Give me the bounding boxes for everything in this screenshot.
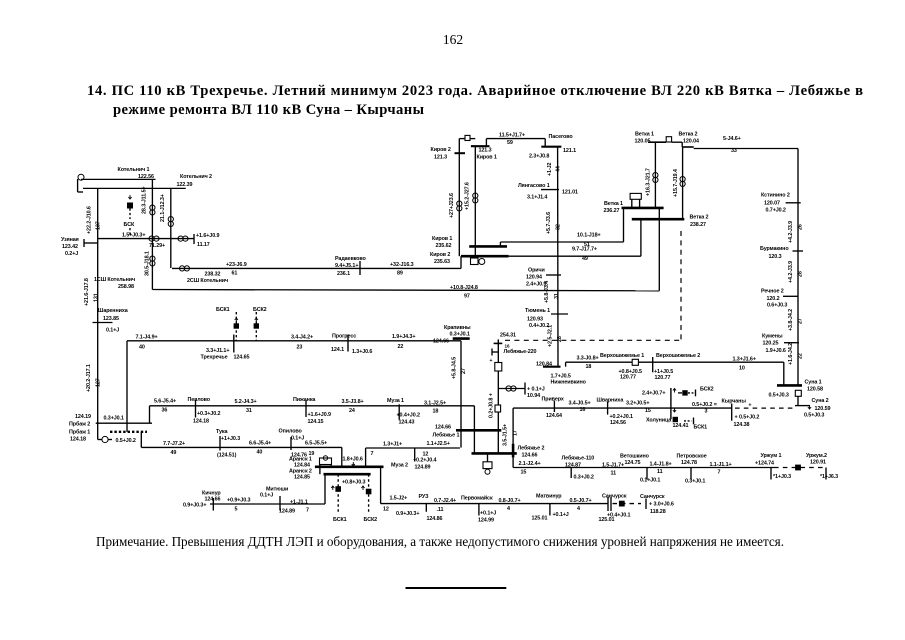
- svg-text:6.5-J5.5+: 6.5-J5.5+: [305, 440, 327, 446]
- svg-text:124.78: 124.78: [681, 460, 697, 466]
- svg-text:+16.3-J21.7: +16.3-J21.7: [646, 168, 652, 196]
- wire drop Аранск to Кичнур line: [324, 474, 326, 504]
- bottom rule: [406, 587, 507, 589]
- svg-text:124.43: 124.43: [399, 419, 415, 425]
- load 0.8+J0.3: [342, 480, 365, 486]
- svg-text:11.17: 11.17: [197, 242, 210, 248]
- node Санчурск: [599, 493, 631, 523]
- wire Прогресс line: [127, 334, 461, 350]
- node Аранск 1: [289, 457, 312, 469]
- svg-text:44: 44: [556, 166, 562, 172]
- load 2.4+J0.7: [642, 389, 688, 397]
- load 1.5+J0.3: [122, 233, 165, 249]
- load 1.6+J0.9: [196, 233, 219, 248]
- svg-text:12: 12: [423, 452, 429, 458]
- capacitor БСК1 Аранск: [331, 474, 346, 523]
- svg-text:32: 32: [556, 224, 562, 230]
- svg-text:Узяная: Узяная: [61, 237, 79, 243]
- svg-text:124.56: 124.56: [610, 420, 626, 426]
- svg-text:Кырчаны: Кырчаны: [722, 399, 747, 405]
- breaker box Аранск: [320, 456, 332, 474]
- svg-text:121.3: 121.3: [479, 148, 492, 154]
- svg-text:61: 61: [232, 271, 238, 277]
- svg-text:Шаренниха: Шаренниха: [98, 308, 129, 314]
- line tag 3.1-J2.5: [424, 400, 446, 414]
- svg-text:1.1+J2.5+: 1.1+J2.5+: [427, 441, 450, 447]
- svg-text:120.91: 120.91: [810, 460, 826, 466]
- svg-text:Санчурск: Санчурск: [602, 493, 627, 499]
- svg-text:10.94: 10.94: [527, 393, 540, 399]
- svg-text:127: 127: [96, 378, 102, 387]
- svg-text:3.5-J3.8+: 3.5-J3.8+: [342, 399, 364, 405]
- node Лебяжье-220: [494, 333, 537, 355]
- svg-text:+21.6-J17.8: +21.6-J17.8: [84, 278, 90, 306]
- node Крапивны: [433, 325, 471, 345]
- wire Киров 1 riser: [465, 146, 476, 246]
- node Верхошижемье 2: [653, 353, 701, 381]
- node Приверх: [542, 396, 564, 418]
- svg-text:162: 162: [443, 32, 463, 47]
- svg-text:89: 89: [397, 271, 403, 277]
- svg-text:Ветошкино: Ветошкино: [620, 453, 650, 459]
- svg-text:Уржум 1: Уржум 1: [761, 453, 782, 459]
- node Киров 1 top: [471, 146, 497, 160]
- svg-text:0.2+J0.8 +: 0.2+J0.8 +: [489, 393, 495, 418]
- capacitor БСК1 Трехречье: [216, 307, 239, 341]
- svg-text:+ 0.1+J: + 0.1+J: [527, 387, 545, 393]
- svg-text:49: 49: [171, 450, 177, 456]
- svg-text:5-J4.6+: 5-J4.6+: [723, 136, 741, 142]
- node Лебяжье 1: [433, 425, 460, 439]
- svg-text:+27+J23.6: +27+J23.6: [449, 193, 455, 218]
- line tag 3.4-J0.5: [569, 400, 591, 413]
- breaker feeder Лебяжье 1: [483, 453, 492, 474]
- svg-text:+1-J2: +1-J2: [547, 162, 553, 176]
- node Пеялово: [188, 397, 221, 424]
- svg-text:+ 3.0+J0.6: + 3.0+J0.6: [649, 502, 674, 508]
- svg-text:Лянгасово 1: Лянгасово 1: [518, 183, 550, 189]
- svg-text:+1+J0.3: +1+J0.3: [221, 436, 240, 442]
- svg-text:+5.8-J4.5: +5.8-J4.5: [452, 357, 458, 379]
- svg-text:15: 15: [521, 469, 527, 475]
- svg-text:Ветка 1: Ветка 1: [604, 201, 623, 207]
- svg-text:+32-J16.3: +32-J16.3: [390, 262, 414, 268]
- svg-text:124.75: 124.75: [625, 460, 641, 466]
- line tag 3.3-J0.8: [577, 355, 599, 370]
- breaker box Вятка top: [666, 137, 682, 143]
- svg-text:49: 49: [582, 256, 588, 262]
- wire Киров bus tie: [474, 246, 476, 256]
- svg-text:Холуница: Холуница: [646, 417, 672, 423]
- bus Киров 2 lower: [430, 252, 509, 265]
- page number: [443, 32, 463, 47]
- svg-text:+4.2-J3.9: +4.2-J3.9: [788, 261, 794, 283]
- wire dashed Уржум tie: [774, 467, 826, 469]
- svg-text:+1.6+J0.9: +1.6+J0.9: [308, 412, 331, 418]
- svg-text:Прбаж 2: Прбаж 2: [69, 421, 90, 428]
- wire drop to Аранск bus: [341, 447, 343, 466]
- svg-text:2.3+J0.8: 2.3+J0.8: [529, 153, 549, 159]
- wire dashed 220kV boundary horizontal: [505, 339, 681, 341]
- svg-text:2.4+J0.9: 2.4+J0.9: [526, 281, 546, 287]
- svg-text:1.8+J0.6: 1.8+J0.6: [343, 456, 363, 462]
- transformer Котельнич 1 upper: [150, 205, 155, 215]
- load feeder circle Прбаж: [98, 436, 136, 444]
- svg-text:Лебяжье 1: Лебяжье 1: [433, 432, 460, 439]
- line tag 1.6-J4.2: [788, 343, 804, 365]
- svg-text:23: 23: [297, 345, 303, 351]
- line tag 6.6-J5.4: [249, 441, 271, 456]
- svg-text:7: 7: [718, 470, 721, 476]
- svg-text:+0.4+J0.1: +0.4+J0.1: [607, 513, 630, 519]
- breaker + load Киров: [471, 258, 485, 265]
- svg-text:+0.2+J0.4: +0.2+J0.4: [413, 458, 436, 464]
- bus junction Холуница: [670, 388, 672, 419]
- svg-text:Киров 1: Киров 1: [432, 236, 452, 242]
- node Аранск 2: [289, 469, 312, 481]
- bus Лебяжье 1 upper: [456, 429, 501, 432]
- svg-text:Шварниха: Шварниха: [597, 397, 625, 403]
- svg-text:Киров 2: Киров 2: [430, 252, 450, 258]
- svg-text:1.3+J1.6+: 1.3+J1.6+: [733, 356, 756, 362]
- svg-text:Приверх: Приверх: [542, 396, 564, 402]
- wire Уржум line: [513, 467, 774, 469]
- svg-text:БСК2: БСК2: [253, 307, 267, 313]
- wire Тука line: [141, 446, 341, 448]
- wire local tie y238.6: [98, 234, 194, 244]
- node Шварниха: [597, 397, 633, 425]
- svg-text:124.87: 124.87: [565, 463, 581, 469]
- svg-text:0.4+J0.2: 0.4+J0.2: [529, 323, 549, 329]
- line tag 1.4-J1.8: [650, 461, 672, 475]
- svg-text:31: 31: [554, 293, 560, 299]
- line tag 1.9+J4.3: [392, 334, 415, 350]
- svg-text:+20.2-J17.1: +20.2-J17.1: [86, 364, 92, 392]
- svg-text:Лебяжье 2: Лебяжье 2: [518, 444, 545, 451]
- svg-text:137: 137: [96, 221, 102, 230]
- svg-text:1.3+J1+: 1.3+J1+: [383, 442, 402, 448]
- wire Киров2 to 2СШ corner: [460, 256, 462, 268]
- wire Верхошижемье line: [566, 361, 784, 363]
- svg-text:7.1-J4.9+: 7.1-J4.9+: [136, 334, 158, 340]
- svg-text:3.2+J0.5+: 3.2+J0.5+: [626, 401, 649, 407]
- svg-text:31: 31: [246, 408, 252, 414]
- wire line 9.7-J17.7 to Вятка: [509, 247, 641, 262]
- transformer Ветка 2: [680, 177, 685, 187]
- capacitor tie square: [619, 501, 625, 507]
- wire Муза 2 line: [366, 448, 460, 467]
- svg-text:59: 59: [507, 140, 513, 146]
- svg-text:120.3: 120.3: [769, 254, 782, 260]
- svg-text:1.9+J0.6: 1.9+J0.6: [766, 348, 786, 354]
- capacitor БСК2 Холуница: [688, 386, 714, 396]
- wire Ветка 2 drop: [673, 147, 683, 219]
- node Верхошижемье 1: [600, 353, 644, 381]
- node Кичнур: [183, 491, 221, 511]
- node Ветка 1 top: [635, 132, 667, 145]
- svg-text:258.98: 258.98: [118, 284, 134, 290]
- svg-text:Радаевково: Радаевково: [335, 256, 367, 262]
- svg-text:97: 97: [464, 294, 470, 300]
- svg-text:Тюмень 1: Тюмень 1: [525, 308, 550, 314]
- node Узяная: [61, 237, 98, 257]
- transformer Киров 1: [473, 193, 478, 203]
- svg-text:0.3+J0.1: 0.3+J0.1: [685, 478, 705, 484]
- svg-text:124.66: 124.66: [522, 453, 538, 459]
- node Санчурск 2: [640, 494, 674, 515]
- svg-text:17: 17: [513, 430, 519, 436]
- svg-text:6.6-J5.4+: 6.6-J5.4+: [249, 441, 271, 447]
- line tag 5.2-J4.3: [235, 399, 257, 414]
- svg-text:3: 3: [705, 409, 708, 415]
- capacitor БСК2 Трехречье: [253, 307, 267, 341]
- svg-text:0.5+J0.3: 0.5+J0.3: [804, 412, 824, 418]
- svg-text:+1.6-J4.2: +1.6-J4.2: [788, 343, 794, 365]
- breaker box Суна: [795, 390, 801, 396]
- svg-text:.11: .11: [437, 507, 444, 513]
- svg-text:40: 40: [257, 450, 263, 456]
- svg-text:121.3: 121.3: [434, 155, 447, 161]
- svg-text:27: 27: [798, 318, 804, 324]
- svg-text:0.9+J0.3+: 0.9+J0.3+: [183, 503, 206, 509]
- svg-text:БСК: БСК: [124, 222, 135, 228]
- svg-text:Пеялово: Пеялово: [188, 397, 211, 403]
- svg-text:1.5-J2+: 1.5-J2+: [390, 495, 408, 501]
- svg-text:125.01: 125.01: [532, 516, 548, 522]
- svg-text:+23-J6.9: +23-J6.9: [226, 262, 247, 268]
- svg-text:120.77: 120.77: [655, 375, 671, 381]
- svg-text:26: 26: [798, 224, 804, 230]
- svg-text:3.4-J0.5+: 3.4-J0.5+: [569, 400, 591, 406]
- line tag 1.1+J2.5: [427, 441, 450, 447]
- svg-text:120.59: 120.59: [815, 406, 831, 412]
- node Ветошкино: [620, 453, 660, 483]
- svg-text:0.1+J0.1: 0.1+J0.1: [640, 477, 660, 483]
- svg-text:1.9+J4.3+: 1.9+J4.3+: [392, 334, 415, 340]
- svg-text:22: 22: [398, 344, 404, 350]
- wire bus drop to 10.1 line: [623, 208, 625, 242]
- transformer Лебяжье tap: [498, 383, 544, 400]
- wire bus drop to long 1СШ line: [658, 208, 660, 291]
- svg-text:0.5+J0.2: 0.5+J0.2: [116, 438, 136, 444]
- wire РУЗ riser: [380, 467, 382, 504]
- svg-text:РУЗ: РУЗ: [419, 494, 430, 500]
- svg-text:+0.4+J0.2: +0.4+J0.2: [397, 412, 420, 418]
- svg-text:+4.2-J3.9: +4.2-J3.9: [788, 221, 794, 243]
- svg-text:Кумены: Кумены: [762, 334, 783, 340]
- svg-text:Речное 2: Речное 2: [761, 289, 784, 295]
- line tag 0.8-J0.7: [499, 498, 521, 512]
- svg-text:118.28: 118.28: [650, 509, 666, 515]
- svg-text:БСК1: БСК1: [333, 517, 347, 523]
- line tag 0.5-J0.7: [570, 498, 592, 512]
- svg-text:10.1-J18+: 10.1-J18+: [577, 233, 601, 239]
- node Тюмень 1: [525, 308, 568, 329]
- wire corner riser to Лебяжье bus: [473, 406, 475, 454]
- node РУЗ: [383, 494, 443, 522]
- svg-text:0.1+J: 0.1+J: [291, 436, 304, 442]
- svg-text:236.1: 236.1: [337, 271, 350, 277]
- svg-text:Кичнур: Кичнур: [202, 491, 221, 497]
- svg-text:28.3-J11.5+: 28.3-J11.5+: [142, 186, 148, 214]
- wire Пеялово line: [150, 406, 475, 423]
- svg-text:28: 28: [557, 336, 563, 342]
- line tag 7.7-J7.2: [163, 441, 185, 456]
- wire Киров 2 riser: [449, 139, 459, 257]
- svg-text:Пасегово: Пасегово: [549, 134, 574, 140]
- node Лянгасово 1: [518, 183, 578, 201]
- svg-text:2.4+J0.7+: 2.4+J0.7+: [642, 391, 665, 397]
- svg-text:Верхошижемье 2: Верхошижемье 2: [656, 353, 700, 359]
- node Муза 1: [387, 398, 420, 425]
- wire bus drop to 9.7 line: [640, 219, 642, 256]
- svg-text:+1-J1.1: +1-J1.1: [290, 499, 308, 505]
- svg-text:Котельнич 1: Котельнич 1: [118, 167, 150, 173]
- svg-text:124.86: 124.86: [427, 516, 443, 522]
- svg-text:Ветка 2: Ветка 2: [690, 214, 709, 220]
- svg-text:+0.3+J0.2: +0.3+J0.2: [197, 411, 220, 417]
- svg-text:Прогресс: Прогресс: [332, 334, 356, 340]
- svg-text:Нижнеивкино: Нижнеивкино: [551, 379, 587, 385]
- svg-text:124.18: 124.18: [193, 418, 209, 424]
- wire bus line 1: [81, 178, 156, 180]
- line tag 32-J16.3: [390, 262, 414, 277]
- svg-text:+0.8+J0.3: +0.8+J0.3: [342, 480, 365, 486]
- svg-text:28: 28: [798, 271, 804, 277]
- svg-text:0.3+J0.1: 0.3+J0.1: [450, 331, 470, 337]
- svg-text:Митюши: Митюши: [266, 487, 288, 493]
- svg-text:120.25: 120.25: [763, 341, 779, 347]
- svg-text:Суна 1: Суна 1: [805, 379, 822, 385]
- svg-text:124.64: 124.64: [546, 413, 562, 419]
- wire line to Пасегово: [486, 132, 545, 146]
- svg-text:120.07: 120.07: [764, 200, 780, 206]
- svg-text:0.8-J0.7+: 0.8-J0.7+: [499, 498, 521, 504]
- bus Аранск upper: [315, 465, 384, 468]
- svg-text:36: 36: [162, 408, 168, 414]
- node Петровское: [677, 453, 707, 484]
- svg-text:120.94: 120.94: [526, 274, 542, 280]
- svg-text:124.89: 124.89: [279, 509, 295, 515]
- svg-text:235.62: 235.62: [436, 243, 452, 249]
- node Котельнич 1: [118, 167, 154, 180]
- wire right column: [797, 149, 799, 386]
- label 3.5-J1.5 riser: [503, 424, 519, 446]
- line tag 4.2-J3.9 b: [788, 261, 804, 283]
- svg-text:Бурмакино: Бурмакино: [760, 246, 789, 252]
- capacitor stub: [490, 344, 510, 365]
- svg-text:124.15: 124.15: [308, 419, 324, 425]
- transformer Киров 2: [457, 201, 462, 211]
- svg-text:16: 16: [580, 407, 586, 413]
- wire riser to Прогресс line: [126, 341, 128, 432]
- bus Лебяжье 1 lower: [472, 452, 517, 455]
- svg-text:0.7-J2.4+: 0.7-J2.4+: [434, 498, 456, 504]
- svg-text:238.27: 238.27: [690, 222, 706, 228]
- generator source circle: [78, 174, 84, 192]
- svg-text:3.3-J0.8+: 3.3-J0.8+: [577, 355, 599, 361]
- svg-text:235.63: 235.63: [434, 259, 450, 265]
- svg-text:120.58: 120.58: [807, 386, 823, 392]
- line tag 1-J1.1: [290, 499, 309, 513]
- svg-text:131: 131: [94, 293, 100, 302]
- svg-text:3.5-J1.5+: 3.5-J1.5+: [503, 424, 509, 446]
- node Лебяжье 2: [518, 444, 545, 475]
- svg-text:+3.8-J4.2: +3.8-J4.2: [788, 309, 794, 331]
- svg-text:0.6+J0.3: 0.6+J0.3: [767, 303, 787, 309]
- svg-text:71.29+: 71.29+: [149, 243, 165, 249]
- svg-text:+15.7-J19.4: +15.7-J19.4: [673, 169, 679, 197]
- svg-text:2СШ Котельнич: 2СШ Котельнич: [187, 278, 228, 284]
- svg-text:3.1-J2.5+: 3.1-J2.5+: [424, 400, 446, 406]
- breaker box Вятка lower: [630, 193, 641, 208]
- svg-text:11: 11: [611, 470, 617, 476]
- wire 1СШ Котельнич long line: [94, 277, 659, 300]
- svg-text:+0.9+J0.3: +0.9+J0.3: [227, 497, 250, 503]
- line tag 1.3+J1.6: [733, 356, 756, 371]
- svg-text:120.93: 120.93: [527, 316, 543, 322]
- transformer Ветка 1: [653, 173, 658, 183]
- svg-text:4: 4: [577, 506, 580, 512]
- svg-text:236.27: 236.27: [604, 208, 620, 214]
- svg-text:15: 15: [645, 408, 651, 414]
- node Трехречье: [201, 335, 250, 361]
- node Матвинур: [532, 494, 569, 522]
- svg-text:22: 22: [798, 353, 804, 359]
- transformer tie right: [178, 236, 188, 241]
- svg-text:+: +: [749, 403, 752, 409]
- svg-text:27: 27: [461, 368, 467, 374]
- svg-text:Ветка 2: Ветка 2: [679, 132, 698, 138]
- node Ветка 2 top: [679, 132, 699, 147]
- node Прбаж 2: [69, 414, 152, 428]
- line tag 1.5-J1.7: [602, 462, 624, 476]
- svg-text:5: 5: [235, 507, 238, 513]
- svg-text:+22.2-J10.6: +22.2-J10.6: [87, 206, 93, 234]
- svg-text:124.41: 124.41: [673, 423, 689, 429]
- node Уржум 2: [806, 453, 838, 480]
- bus Аранск lower: [324, 473, 371, 476]
- wire Приверх long line: [513, 408, 732, 467]
- breaker box upper: [495, 363, 502, 372]
- svg-text:4: 4: [507, 506, 510, 512]
- svg-text:122.39: 122.39: [177, 182, 193, 188]
- wire 2СШ Котельнич line: [172, 262, 461, 284]
- wire corner to Суна 1: [783, 362, 785, 385]
- svg-text:3.1+J1.4: 3.1+J1.4: [527, 195, 547, 201]
- svg-text:254.31: 254.31: [500, 333, 516, 339]
- svg-text:11: 11: [657, 469, 663, 475]
- node Речное 2: [761, 289, 798, 309]
- svg-text:БСК1: БСК1: [694, 424, 708, 430]
- svg-text:Примечание. Превышения ДДТН ЛЭ: Примечание. Превышения ДДТН ЛЭП и оборуд…: [96, 534, 784, 549]
- label 7: [371, 451, 374, 457]
- svg-text:121.01: 121.01: [562, 190, 578, 196]
- svg-text:БСК2: БСК2: [700, 386, 714, 392]
- svg-text:1.1-J1.1+: 1.1-J1.1+: [710, 462, 732, 468]
- svg-text:11.5+J1.7+: 11.5+J1.7+: [499, 132, 525, 138]
- node Муза 2: [391, 448, 436, 471]
- svg-text:0.5-J0.7+: 0.5-J0.7+: [570, 498, 592, 504]
- wire dashed 220kV boundary vertical: [680, 231, 682, 340]
- svg-text:Тука: Тука: [216, 429, 228, 435]
- node Прбаж 1: [69, 429, 90, 443]
- node Холуница: [646, 408, 688, 429]
- wire bus line 2: [83, 187, 186, 189]
- svg-text:7.7-J7.2+: 7.7-J7.2+: [163, 441, 185, 447]
- svg-text:124.89: 124.89: [415, 465, 431, 471]
- svg-text:Прбаж 1: Прбаж 1: [69, 429, 90, 436]
